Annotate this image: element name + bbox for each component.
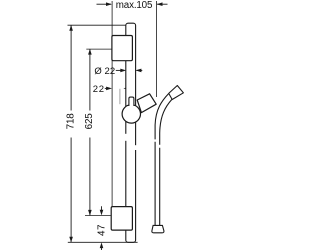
top wall bracket (112, 36, 132, 61)
slider clamp screw stub (129, 97, 134, 106)
dimension d22 right arrow pointing left at bar right edge (136, 69, 143, 73)
svg-text:625: 625 (84, 113, 95, 130)
shower hose right wall (160, 99, 172, 225)
dimension 625 top extension line (86, 48, 112, 50)
shower holder arm (rotated rectangle) (137, 94, 156, 113)
bar break gap right line (135, 145, 137, 150)
dimension 625/47 shared bottom extension line (85, 215, 111, 217)
dimension max.105 top line right part with arrow (157, 2, 168, 6)
dimension 22 left arrow pointing right at wall line (105, 87, 112, 91)
dimension 718 vertical line (69, 25, 73, 242)
dimension 47 bottom arrow (outside, pointing up) (100, 242, 104, 250)
svg-text:47: 47 (97, 225, 108, 237)
dimension d22 left arrow pointing right at bar left edge (116, 69, 126, 73)
shower hose left wall (155, 94, 169, 226)
dimension 625 vertical line (88, 49, 92, 216)
bottom wall bracket (111, 207, 132, 231)
dimension 22 right arrow pointing left (123, 87, 130, 91)
svg-text:max.105: max.105 (116, 0, 153, 11)
dimension 718 top extension line (68, 24, 127, 26)
bar break gap left line (125, 134, 127, 141)
slider knob (circle) (122, 105, 140, 123)
svg-text:718: 718 (65, 113, 76, 130)
hose bottom nut (152, 225, 164, 232)
hose conical end fitting (rotated rect near holder) (169, 86, 184, 100)
wall reference extension line (111, 1, 113, 207)
max.105 right extension line (155, 1, 157, 97)
svg-text:Ø 22: Ø 22 (94, 66, 115, 77)
wall bar (vertical rail, full length, rounded ends) (126, 23, 136, 242)
faint hidden edge left of slider (119, 89, 121, 104)
svg-text:22: 22 (93, 84, 104, 95)
dimension 47 top arrow (outside, pointing down) (100, 206, 104, 215)
dimension max.105 top line left part with arrow (97, 2, 112, 6)
dimension 718 bottom extension line (68, 241, 138, 243)
